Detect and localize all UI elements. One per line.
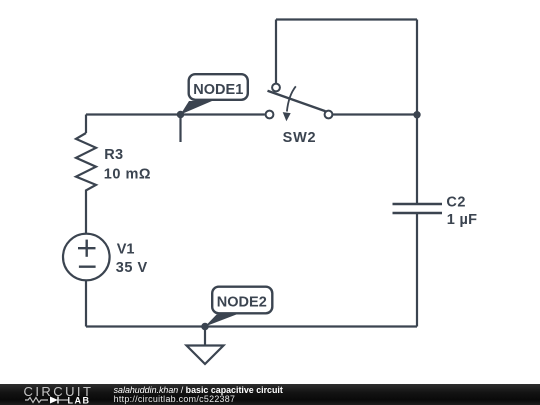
svg-text:R3: R3: [104, 147, 123, 163]
svg-text:SW2: SW2: [283, 130, 317, 146]
svg-text:C2: C2: [446, 195, 466, 211]
svg-text:NODE2: NODE2: [217, 295, 267, 311]
svg-text:V1: V1: [117, 241, 135, 257]
svg-text:1 µF: 1 µF: [447, 212, 478, 228]
svg-text:NODE1: NODE1: [193, 82, 243, 98]
svg-text:10 mΩ: 10 mΩ: [104, 167, 151, 183]
svg-text:35 V: 35 V: [116, 260, 148, 276]
svg-text:LAB: LAB: [68, 395, 91, 405]
